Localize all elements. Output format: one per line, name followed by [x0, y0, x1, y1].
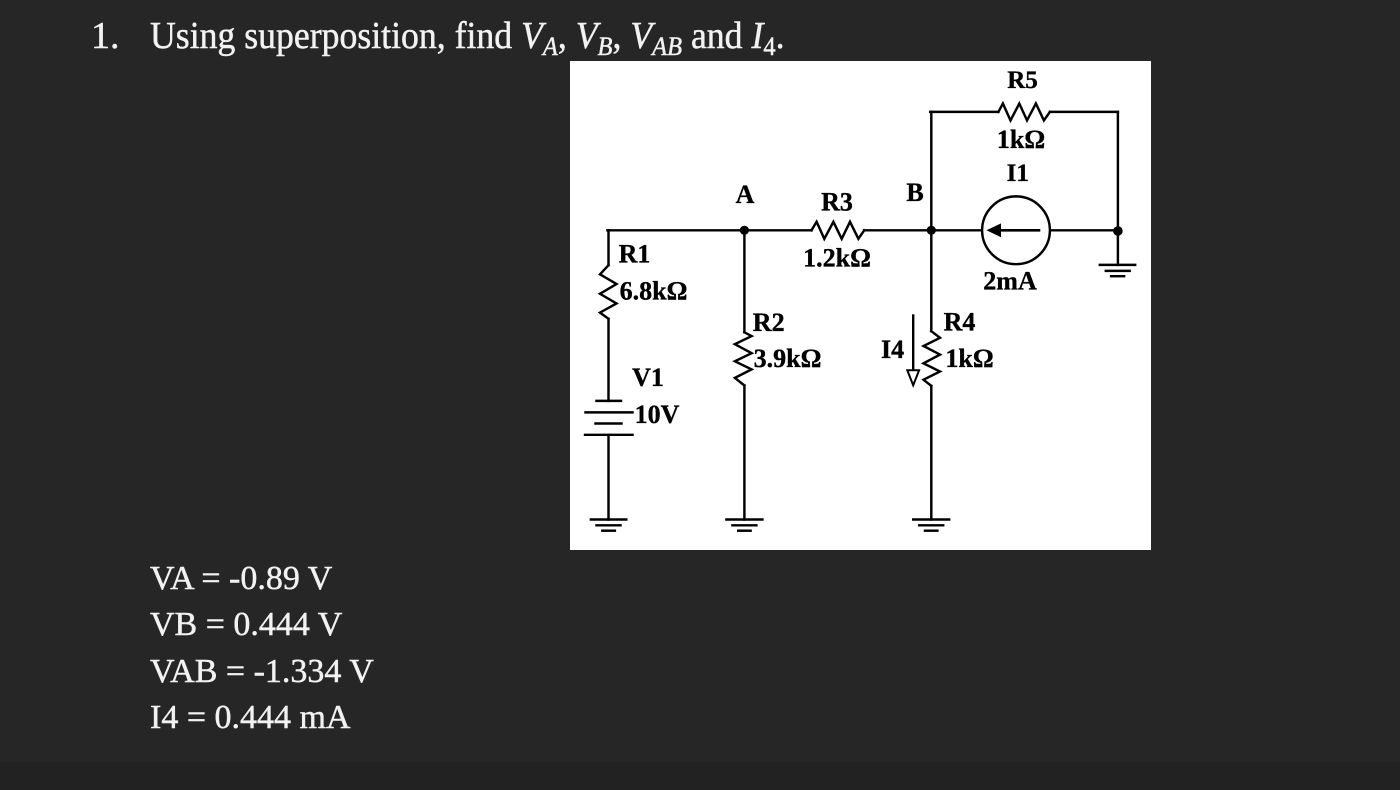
svg-text:R4: R4	[944, 307, 976, 336]
svg-text:B: B	[906, 178, 923, 207]
wire: right vertical from top wire to right ground	[1117, 112, 1119, 265]
I4 arrow head (open, points down)	[907, 370, 919, 385]
wire: node B up to top wire	[930, 112, 932, 230]
svg-text:3.9kΩ: 3.9kΩ	[754, 344, 822, 373]
answers block	[150, 556, 374, 741]
wire: top horizontal left of R5	[930, 111, 998, 113]
svg-text:R3: R3	[821, 188, 853, 217]
resistor R5 zigzag (1k) horizontal	[998, 104, 1050, 121]
resistor R4 zigzag (1k)	[924, 331, 941, 386]
svg-text:1.2kΩ: 1.2kΩ	[803, 244, 871, 273]
svg-text:10V: 10V	[635, 400, 680, 429]
ground right (under I1 return)	[1100, 264, 1135, 266]
svg-text:1kΩ: 1kΩ	[945, 344, 993, 373]
circuit panel	[570, 61, 1151, 550]
wire: I1 circle right to right node	[1050, 229, 1118, 231]
ground under V1	[591, 518, 626, 520]
I1 arrow shaft	[1000, 229, 1039, 232]
wire: battery bottom to ground	[607, 435, 609, 520]
svg-text:6.8kΩ: 6.8kΩ	[620, 277, 688, 306]
svg-text:2mA: 2mA	[983, 267, 1037, 296]
svg-text:1kΩ: 1kΩ	[997, 125, 1045, 154]
white background of schematic image	[570, 61, 1151, 550]
wire: node B down to R4 top	[930, 230, 932, 331]
wire: left vertical from main wire to R1 top	[607, 230, 609, 265]
wire: main horizontal left segment (V1 top to R3 left, through node A)	[607, 229, 811, 231]
svg-text:A: A	[736, 180, 755, 209]
resistor R3 zigzag (1.2k) horizontal	[812, 222, 865, 239]
right junction dot	[1113, 226, 1123, 236]
svg-text:R5: R5	[1007, 67, 1038, 94]
I4 current arrow shaft	[912, 316, 914, 372]
node A junction dot	[740, 226, 749, 235]
wire: node A down to R2 top	[743, 230, 745, 332]
wire: R4 bottom to ground	[930, 386, 932, 520]
svg-text:V1: V1	[632, 363, 664, 392]
svg-text:I4: I4	[881, 335, 904, 364]
wire: R2 bottom to ground	[743, 386, 745, 520]
I1 arrow head (filled, points left)	[987, 223, 1002, 237]
bottom darker strip	[0, 762, 1400, 790]
ground under R4	[913, 518, 949, 520]
ground under R2	[726, 518, 762, 520]
svg-text:R2: R2	[753, 308, 785, 337]
node B junction dot	[927, 226, 936, 235]
wire: top horizontal right of R5	[1050, 111, 1118, 113]
svg-text:I1: I1	[1007, 160, 1029, 187]
current source I1 circle	[982, 196, 1050, 264]
svg-text:R1: R1	[619, 239, 651, 268]
resistor R1 zigzag (6.8k)	[600, 265, 617, 319]
wire: R3 right to I1 circle left, through node B	[864, 229, 982, 231]
wire: R1 bottom to battery top plate	[607, 319, 609, 401]
battery V1 plates	[597, 400, 622, 402]
resistor R2 zigzag (3.9k)	[735, 332, 752, 385]
title line	[91, 14, 120, 58]
